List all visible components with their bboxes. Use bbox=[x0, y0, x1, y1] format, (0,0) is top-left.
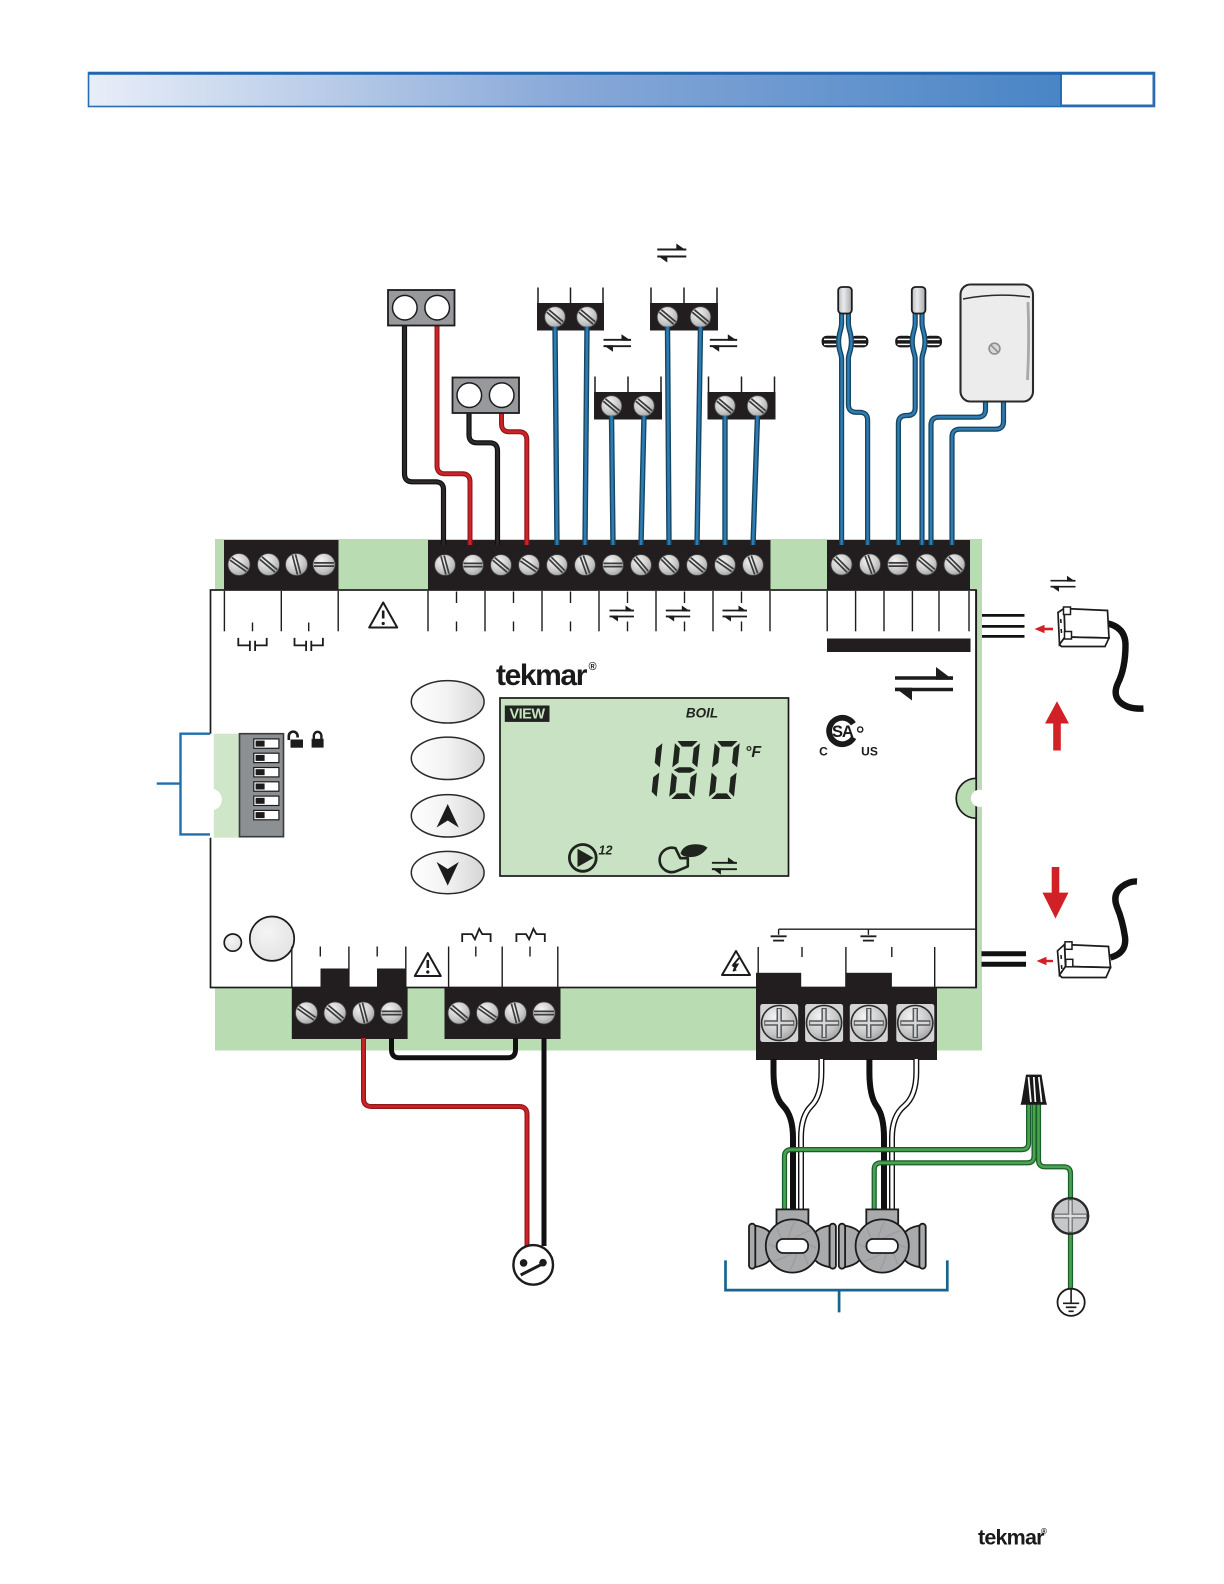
button 3 bbox=[411, 795, 484, 837]
DIP switch 6 bbox=[254, 810, 279, 819]
DIP switch 1 bbox=[254, 739, 279, 748]
screw terminal R2 bbox=[860, 554, 881, 575]
svg-text:C: C bbox=[819, 745, 828, 759]
wire green to ground rod bbox=[1039, 1102, 1071, 1199]
terminal block D bbox=[708, 377, 710, 393]
bottom terminal label dividers (block B2) bbox=[448, 947, 450, 988]
wire black (hot) to pump 1 bbox=[774, 1059, 794, 1210]
external switch (thermostat) bbox=[513, 1245, 553, 1285]
exchange arrows (mid-right) bbox=[710, 334, 737, 352]
svg-text:US: US bbox=[861, 745, 878, 759]
indoor sensor box wire left bbox=[931, 399, 986, 545]
up arrow glyph bbox=[437, 804, 459, 828]
DIP switch 2 bbox=[254, 753, 279, 762]
control front cover (white) bbox=[211, 590, 977, 988]
DIP switch block bbox=[240, 734, 284, 837]
wire black from connector J1 to terminal M1 bbox=[405, 322, 444, 545]
wire red to external switch bbox=[364, 1038, 528, 1246]
down arrow glyph bbox=[437, 862, 459, 886]
pump icon with 12 bbox=[569, 845, 596, 872]
screw C2 bbox=[634, 396, 655, 417]
terminal block A bbox=[537, 288, 539, 304]
connector P2 cable bbox=[1111, 881, 1138, 957]
screw A2 bbox=[577, 307, 598, 328]
ground junction screw bbox=[1053, 1198, 1089, 1234]
svg-text:VIEW: VIEW bbox=[509, 707, 545, 723]
unlock icon bbox=[291, 740, 304, 748]
thermistor symbol 2 bbox=[516, 929, 544, 942]
wire red from connector J2 to terminal M4 bbox=[502, 410, 527, 545]
exchange arrows in cells 4-6 bbox=[610, 606, 635, 622]
screw terminal M2 bbox=[463, 555, 484, 576]
connector P1 cable bbox=[1108, 624, 1144, 709]
connector P2 bbox=[1065, 945, 1111, 968]
screw terminal M5 bbox=[547, 555, 568, 576]
svg-text:BOIL: BOIL bbox=[686, 706, 718, 721]
wire nut bbox=[1021, 1075, 1048, 1105]
screw terminal M9 bbox=[659, 555, 680, 576]
outdoor sensor S2 probe bbox=[912, 287, 926, 314]
header bar bbox=[89, 73, 1155, 107]
indoor sensor box bbox=[961, 285, 1034, 402]
exchange arrows above P1 bbox=[1051, 576, 1076, 592]
control backing plate (green) bbox=[215, 539, 982, 1051]
screw terminal M10 bbox=[687, 555, 708, 576]
power screw terminal P4 bbox=[896, 1004, 934, 1042]
screw terminal R5 bbox=[944, 554, 965, 575]
black tabs above block B1 bbox=[321, 969, 350, 989]
earth ground symbol bbox=[1058, 1289, 1085, 1316]
screw terminal B2-1 bbox=[448, 1002, 470, 1024]
exchange arrows (top) bbox=[657, 244, 686, 263]
screw terminal L3 bbox=[286, 554, 308, 576]
power terminal dividers bbox=[757, 947, 759, 988]
screw terminal M8 bbox=[631, 555, 652, 576]
screw D1 bbox=[715, 396, 736, 417]
wire black to external switch bbox=[542, 1038, 547, 1246]
connector P1 bbox=[1064, 609, 1109, 639]
terminal label dividers right strip bbox=[826, 591, 828, 631]
screw terminal B1-2 bbox=[324, 1002, 346, 1024]
connector J2 (2-circle plug) bbox=[453, 378, 520, 414]
pump P2 bbox=[866, 1209, 898, 1224]
screw terminal B1-4 bbox=[381, 1002, 403, 1024]
power terminal block bbox=[756, 973, 801, 993]
unpowered input terminal block (left, terminals 1-4) bbox=[224, 540, 339, 590]
wire blue sensor lead 7 bbox=[722, 416, 727, 546]
outdoor sensor S2 wire right bbox=[922, 308, 925, 545]
right mounting ear bbox=[956, 778, 976, 818]
red arrow to P2 bbox=[1045, 960, 1053, 962]
screw terminal R1 bbox=[831, 554, 852, 575]
screw terminal M12 bbox=[743, 555, 764, 576]
boiler sensor S1 probe bbox=[838, 287, 852, 314]
screw terminal L1 bbox=[228, 554, 250, 576]
power screw terminal P3 bbox=[850, 1004, 888, 1042]
thermistor symbol 1 bbox=[462, 929, 490, 942]
screw terminal R3 bbox=[888, 554, 909, 575]
warning triangle (bottom) bbox=[415, 953, 441, 976]
CSA certification logo bbox=[824, 713, 860, 749]
svg-text:®: ® bbox=[1041, 1527, 1047, 1536]
screw terminal M11 bbox=[715, 555, 736, 576]
screw A1 bbox=[545, 307, 566, 328]
wire blue sensor lead 5 bbox=[612, 416, 614, 546]
wire black from connector J2 to terminal M3 bbox=[469, 410, 498, 545]
wire white (neutral) to pump 1 bbox=[801, 1059, 821, 1210]
button 1 bbox=[411, 681, 484, 723]
screw terminal B1-1 bbox=[296, 1002, 318, 1024]
exchange arrows (mid-left) bbox=[604, 334, 632, 352]
three wire stubs to connector P1 bbox=[982, 614, 1025, 617]
svg-text:°F: °F bbox=[745, 744, 762, 761]
external switch contact symbol 1 bbox=[238, 638, 266, 651]
terminal block B1 bbox=[292, 988, 408, 1039]
screw terminal B2-2 bbox=[477, 1002, 499, 1024]
screw terminal M4 bbox=[519, 555, 540, 576]
red arrow down bbox=[1052, 867, 1060, 896]
wire red from connector J1 to terminal M2 bbox=[437, 322, 470, 545]
external switch contact symbol 2 bbox=[295, 638, 323, 651]
screw terminal L2 bbox=[258, 554, 280, 576]
boiler sensor S1 wire right bbox=[848, 308, 867, 545]
power screw terminal P1 bbox=[760, 1004, 798, 1042]
sensor/demand terminal strip (middle, terminals 5-16) bbox=[428, 540, 771, 591]
exchange arrows in LCD bbox=[712, 857, 737, 875]
terminal block C bbox=[594, 377, 596, 393]
burner icon bbox=[660, 848, 688, 872]
screw terminal M7 bbox=[603, 555, 624, 576]
DIP switch 3 bbox=[254, 768, 279, 777]
LCD display bbox=[500, 698, 789, 876]
svg-text:tekmar: tekmar bbox=[978, 1526, 1045, 1550]
wire white (neutral) to pump 2 bbox=[892, 1059, 916, 1210]
DIP switch pointer bracket (blue) bbox=[157, 734, 210, 835]
wire blue sensor lead 3 bbox=[668, 327, 670, 546]
wire green junction to earth ground bbox=[1068, 1232, 1073, 1290]
terminal label dividers left block bbox=[223, 591, 225, 631]
screw terminal M6 bbox=[575, 555, 596, 576]
piezo / LED circles bbox=[224, 934, 241, 951]
sensor terminal strip (right, terminals 17-21) bbox=[827, 540, 970, 590]
wire blue sensor lead 8 bbox=[753, 416, 758, 546]
screw terminal B1-3 bbox=[353, 1002, 375, 1024]
VIEW label bbox=[505, 706, 550, 722]
large exchange arrows bbox=[895, 667, 953, 701]
svg-text:tekmar: tekmar bbox=[496, 659, 588, 692]
wire blue sensor lead 4 bbox=[697, 327, 701, 546]
svg-text:12: 12 bbox=[599, 844, 613, 858]
connector J1 (2-circle plug) bbox=[388, 290, 455, 326]
screw terminal M1 bbox=[435, 555, 456, 576]
screw terminal L4 bbox=[313, 554, 335, 576]
lock icon bbox=[312, 739, 324, 748]
DIP switch 5 bbox=[254, 796, 279, 805]
boiler sensor S1 wire left bbox=[839, 308, 842, 545]
7-segment reading 180 bbox=[652, 741, 740, 799]
outdoor sensor S2 wire tie bbox=[895, 336, 913, 348]
screw B1 bbox=[657, 307, 678, 328]
boiler sensor S1 wire tie bbox=[822, 336, 840, 348]
screw terminal B2-3 bbox=[505, 1002, 527, 1024]
pumps group bracket bbox=[726, 1260, 948, 1312]
black label bar under right strip bbox=[827, 639, 971, 653]
red arrow up bbox=[1053, 719, 1061, 751]
two wire stubs to connector P2 bbox=[982, 951, 1027, 956]
left cutout notch bbox=[207, 734, 214, 838]
indoor sensor box wire right bbox=[952, 399, 1004, 545]
wire green ground to pump 1 bbox=[785, 1102, 1029, 1210]
wire blue sensor lead 2 bbox=[585, 327, 587, 546]
screw D2 bbox=[747, 396, 768, 417]
wire black jumper loop bbox=[392, 1038, 516, 1058]
bottom terminal label dividers (block B1) bbox=[291, 947, 293, 988]
wire black (hot) to pump 2 bbox=[869, 1059, 884, 1210]
screw C1 bbox=[601, 396, 622, 417]
screw terminal M3 bbox=[491, 555, 512, 576]
screw B2 bbox=[690, 307, 711, 328]
button 2 bbox=[411, 737, 484, 779]
wire blue sensor lead 1 bbox=[555, 327, 557, 546]
outdoor sensor S2 wire left bbox=[898, 308, 915, 545]
red arrow to P1 bbox=[1043, 628, 1053, 631]
line voltage label rail bbox=[779, 928, 976, 930]
terminal block B2 bbox=[445, 988, 561, 1039]
wire green ground to pump 2 bbox=[874, 1102, 1034, 1210]
svg-text:SA: SA bbox=[832, 723, 854, 741]
DIP switch 4 bbox=[254, 782, 279, 791]
button 4 bbox=[411, 851, 484, 893]
terminal label dividers middle strip bbox=[427, 591, 429, 631]
electric shock warning triangle bbox=[722, 951, 750, 975]
screw terminal B2-4 bbox=[533, 1002, 555, 1024]
pump P1 bbox=[777, 1209, 809, 1224]
power screw terminal P2 bbox=[805, 1004, 843, 1042]
wire blue sensor lead 6 bbox=[641, 416, 644, 546]
warning triangle (top) bbox=[369, 603, 397, 628]
svg-text:®: ® bbox=[589, 661, 597, 673]
terminal block B bbox=[650, 288, 652, 304]
screw terminal R4 bbox=[916, 554, 937, 575]
